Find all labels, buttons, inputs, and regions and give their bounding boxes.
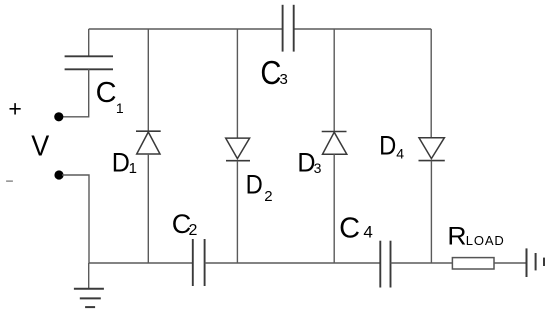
label C2 (172, 209, 198, 239)
capacitor C2 (193, 239, 205, 286)
svg-text:D: D (112, 146, 130, 177)
label C4 (339, 213, 373, 245)
capacitor C4 (380, 241, 390, 288)
wire left ground stem (88, 263, 90, 289)
svg-text:C: C (339, 213, 360, 245)
wire D4 column upper (430, 29, 432, 138)
wire bottom rail segment 3 (391, 262, 453, 264)
svg-text:1: 1 (116, 100, 124, 116)
diode D2 (226, 138, 250, 161)
label D3 (297, 146, 321, 177)
svg-text:4: 4 (363, 223, 372, 242)
wire D3 column lower (333, 154, 335, 263)
diode D4 (419, 138, 445, 161)
wire resistor to right ground (494, 262, 527, 264)
svg-text:D: D (246, 170, 263, 200)
wire D2 column lower (236, 161, 238, 263)
label D4 (379, 131, 404, 162)
wire bottom rail segment 1 (89, 262, 193, 264)
wire left column top (rail to C1) (88, 29, 90, 56)
wire top rail left segment (89, 28, 283, 30)
ground left (74, 289, 104, 307)
label minus (6, 180, 13, 182)
diode D1 (136, 131, 161, 154)
label C1 (96, 77, 124, 116)
resistor RLOAD (452, 258, 494, 269)
svg-text:3: 3 (314, 160, 322, 176)
wire D1 column upper (147, 29, 149, 131)
svg-text:LOAD: LOAD (466, 233, 505, 248)
capacitor C1 (65, 56, 113, 69)
svg-text:+: + (8, 95, 21, 121)
wire C1 to plus terminal (62, 69, 89, 117)
node plus terminal dot (54, 112, 63, 121)
label D1 (112, 146, 137, 177)
node minus terminal dot (54, 170, 63, 179)
svg-text:C: C (96, 77, 117, 109)
wire top rail right segment (294, 28, 432, 30)
wire D2 column upper (236, 29, 238, 138)
svg-text:2: 2 (264, 188, 272, 205)
wire bottom rail segment 2 (205, 262, 381, 264)
svg-text:R: R (447, 223, 466, 250)
wire D3 column upper (333, 29, 335, 132)
diode D3 (322, 132, 347, 155)
svg-text:3: 3 (280, 71, 288, 88)
wire D4 column lower (430, 161, 432, 263)
label D2 (246, 170, 273, 205)
svg-text:V: V (31, 130, 49, 162)
wire minus terminal to bottom rail (62, 175, 89, 263)
capacitor C3 (283, 5, 294, 52)
svg-text:D: D (379, 131, 396, 161)
ground right (rotated) (527, 248, 545, 277)
svg-text:C: C (260, 54, 281, 91)
svg-text:2: 2 (189, 222, 198, 239)
label C3 (260, 54, 287, 91)
svg-text:4: 4 (396, 146, 404, 162)
wire D1 column lower (147, 154, 149, 263)
label RLOAD (447, 223, 504, 250)
svg-text:1: 1 (129, 160, 137, 177)
